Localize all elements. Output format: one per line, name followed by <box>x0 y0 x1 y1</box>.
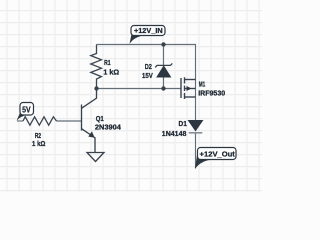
svg-text:5V: 5V <box>22 106 31 115</box>
diode D1 (1N4148) <box>189 121 203 131</box>
svg-text:D1: D1 <box>179 119 187 128</box>
grid (decorative) <box>0 0 262 192</box>
wire: D2 top lead <box>163 45 165 66</box>
wire: D2 bottom lead <box>163 77 165 89</box>
svg-text:1 kΩ: 1 kΩ <box>103 67 119 76</box>
resistor R2 <box>23 117 57 125</box>
svg-text:M1: M1 <box>199 80 206 89</box>
zener diode D2 (15V) <box>155 63 172 77</box>
D1 cathode bar <box>189 132 203 134</box>
MOSFET M1 (IRF9530 P-channel) <box>181 77 196 99</box>
svg-text:+12V_Out: +12V_Out <box>200 149 236 158</box>
resistor R1 <box>91 45 102 89</box>
net flag +12V_IN <box>130 26 166 45</box>
ground symbol <box>87 153 104 162</box>
net flag 5V <box>17 103 34 121</box>
transistor Q1 (NPN 2N3904) <box>82 89 97 153</box>
node: junction dot top rail / D2 <box>161 42 165 46</box>
wire: gate node from R1 bottom to M1 gate <box>97 88 182 90</box>
net flag +12V_Out <box>195 148 236 169</box>
svg-text:D2: D2 <box>145 62 152 71</box>
svg-text:15V: 15V <box>142 71 153 80</box>
emitter arrowhead of Q1 <box>88 131 94 137</box>
svg-text:R1: R1 <box>104 58 111 67</box>
wire: +12V rail from R1 top to M1 source/drain column <box>97 45 196 121</box>
wire: base wire from 5V flag through R2 to Q1 base <box>17 120 23 122</box>
svg-text:2N3904: 2N3904 <box>95 122 122 131</box>
svg-text:1N4148: 1N4148 <box>162 129 187 138</box>
svg-text:1 kΩ: 1 kΩ <box>32 139 46 148</box>
node: junction dot gate wire / D2 anode <box>161 86 165 90</box>
M1 body arrow (P-channel) <box>187 86 192 91</box>
wire: D1 bottom lead to +12V_Out flag <box>195 133 197 169</box>
svg-text:+12V_IN: +12V_IN <box>134 26 163 35</box>
node: junction dot gate wire / Q1 collector <box>94 86 98 90</box>
svg-text:IRF9530: IRF9530 <box>198 89 225 98</box>
